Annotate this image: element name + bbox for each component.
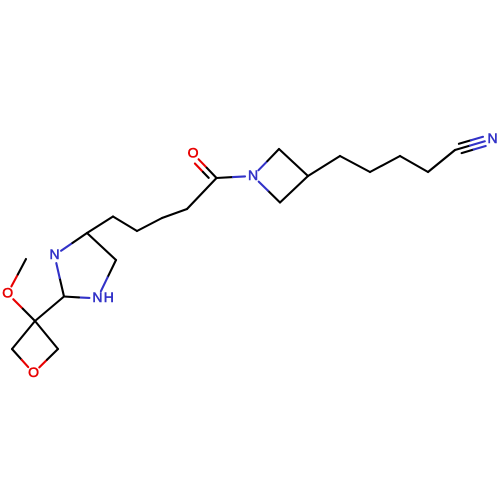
bond C2-N3: [56, 263, 64, 296]
chain bond CH2-CH2 f: [400, 156, 428, 172]
azetidine bond C4-N: [259, 182, 280, 203]
amide bond C-N: [217, 176, 246, 178]
chain bond CH2-C(nitrile): [428, 150, 455, 172]
bond oxetane O-C2R: [39, 349, 58, 367]
svg-text:O: O: [2, 284, 13, 300]
chain bond CH2-C(=O): [187, 178, 217, 209]
chain bond CH2-CH2 d: [340, 156, 370, 172]
svg-text:O: O: [28, 364, 39, 380]
bond C3-C2(imidazoline): [35, 297, 64, 322]
chain bond CH2-CH2 e: [370, 156, 400, 172]
bond O(methoxy)-C3: [13, 299, 35, 321]
chain bond CH2-CH2 c: [162, 209, 187, 218]
chain bond azC3-CH2: [308, 156, 340, 176]
svg-text:H: H: [104, 289, 114, 305]
bond oxetane C2L-O: [12, 349, 28, 367]
azetidine bond N-C2: [259, 149, 280, 170]
bond C4-C5: [87, 233, 116, 260]
bond N1-C2: [64, 297, 89, 298]
chain bond CH2-CH2 b: [137, 218, 162, 231]
svg-text:N: N: [248, 167, 258, 183]
bond oxetane C3-C2L: [12, 321, 35, 349]
svg-text:N: N: [92, 289, 102, 305]
bond N3-C4: [61, 233, 87, 251]
svg-text:O: O: [188, 144, 199, 160]
azetidine bond C3-C4: [280, 176, 308, 203]
chain bond CH2-CH2 a: [113, 217, 137, 232]
bond O(methoxy)-CH3: [11, 259, 26, 286]
bond C5-N1: [101, 260, 116, 291]
bond oxetane C2R-C3: [35, 321, 58, 349]
azetidine bond C2-C3: [279, 149, 308, 176]
chain bond C4-CH2: [87, 217, 113, 234]
svg-text:N: N: [487, 130, 497, 146]
nitrile triple bond C#N: [455, 137, 486, 153]
carbonyl double bond C=O: [195, 159, 217, 178]
svg-text:N: N: [49, 246, 59, 262]
